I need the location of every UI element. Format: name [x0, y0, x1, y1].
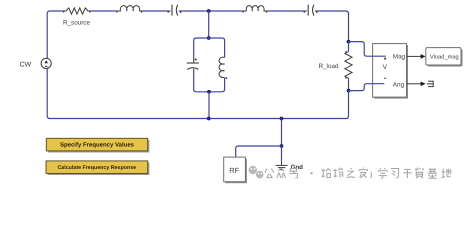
capacitor C2	[303, 5, 317, 16]
tank inductor bottom wire	[209, 78, 225, 92]
signal wire Mag output	[407, 54, 426, 59]
wire tank bottom to rail	[208, 92, 210, 119]
button Specify Frequency Values	[46, 138, 149, 152]
sensor input wire minus	[349, 84, 385, 91]
wire to ground symbol	[281, 146, 283, 161]
svg-text:Calculate Frequency Response: Calculate Frequency Response	[57, 165, 136, 171]
node B junction (R_load top)	[347, 40, 351, 44]
wire R_load bottom to bottom rail	[282, 91, 349, 119]
wire R_source to L1	[90, 10, 116, 12]
current source CW	[41, 58, 51, 68]
svg-text:Ang: Ang	[393, 81, 405, 88]
capacitor C1	[167, 5, 181, 16]
watermark logo	[249, 166, 264, 179]
tank cap bottom wire	[194, 71, 209, 92]
svg-text:CW: CW	[20, 62, 32, 69]
tank top junction	[207, 36, 211, 40]
wire ground node to RF block	[236, 146, 282, 157]
wire C2 to top-right corner down to R_load	[318, 11, 349, 42]
node C junction (R_load bottom)	[347, 89, 351, 93]
wire top-left corner to R_source	[47, 11, 63, 58]
node A junction	[207, 9, 211, 13]
wire C1 to node A	[181, 10, 208, 12]
svg-text:V: V	[383, 64, 388, 71]
terminator on Ang	[427, 81, 433, 87]
wire ground drop	[281, 119, 283, 147]
wire left vertical below source to bottom rail	[47, 69, 209, 119]
capacitor C_tank	[187, 58, 199, 70]
rail junction for ground	[280, 117, 284, 121]
svg-text:Specify Frequency Values: Specify Frequency Values	[60, 142, 135, 149]
inductor L2	[242, 6, 267, 13]
sensor input wire plus	[349, 42, 386, 57]
wire bottom rail mid	[209, 118, 282, 120]
svg-text:Vload_mag: Vload_mag	[430, 54, 459, 61]
button Calculate Frequency Response	[46, 161, 149, 175]
ground symbol	[276, 161, 288, 170]
display Vload_mag	[426, 48, 463, 67]
signal wire Ang output	[407, 82, 426, 87]
wire L1 to C1	[143, 10, 168, 12]
svg-text:RF: RF	[229, 166, 239, 175]
svg-text:Mag: Mag	[393, 54, 406, 61]
svg-text:R_source: R_source	[63, 20, 90, 27]
wire node A down to tank	[208, 11, 210, 38]
resistor R_source	[63, 8, 91, 14]
wire L2 to C2	[267, 10, 303, 12]
tank top rail	[194, 38, 225, 59]
svg-text:R_load: R_load	[319, 63, 339, 70]
inductor L1	[116, 6, 144, 13]
wire node A to L2	[209, 10, 243, 12]
RF block	[224, 157, 247, 183]
voltage sensor block U1	[373, 44, 408, 99]
resistor R_load	[345, 42, 352, 91]
tank bottom junction	[207, 90, 211, 94]
rail junction below tank	[207, 117, 211, 121]
watermark text	[265, 168, 451, 179]
inductor L_tank	[219, 57, 227, 80]
ground node junction	[280, 144, 284, 148]
